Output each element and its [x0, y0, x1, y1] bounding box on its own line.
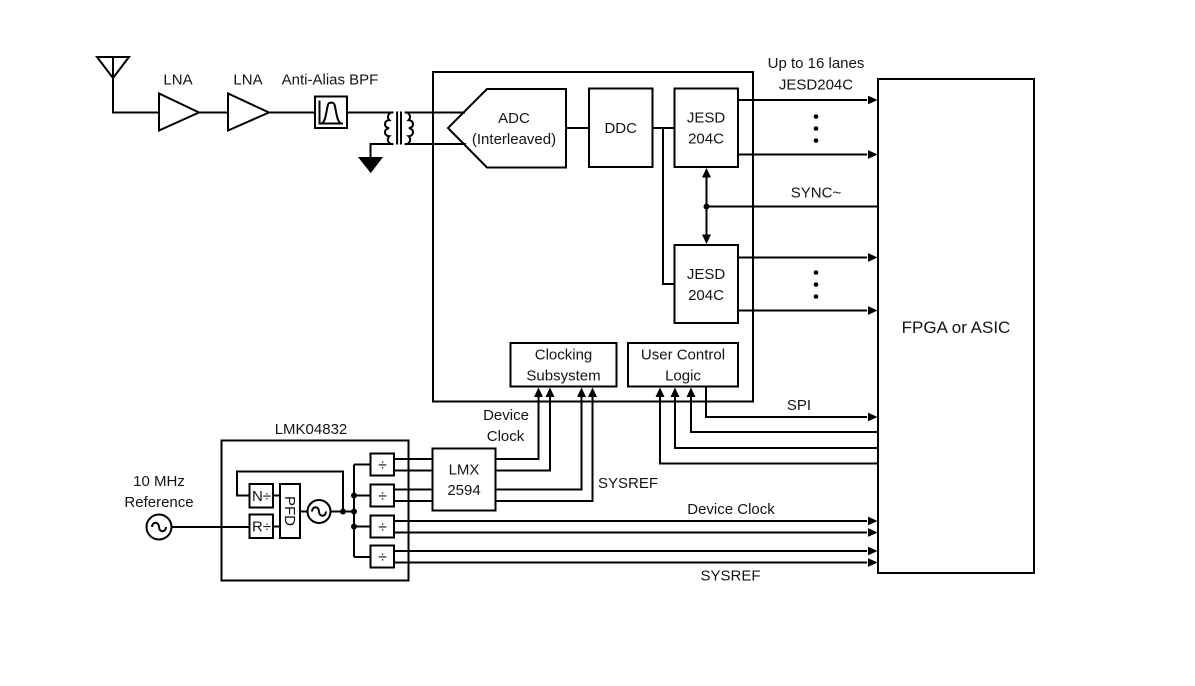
svg-text:DDC: DDC: [604, 120, 637, 137]
svg-text:LMX: LMX: [449, 462, 480, 479]
svg-text:JESD: JESD: [687, 266, 726, 283]
svg-text:2594: 2594: [447, 482, 480, 499]
svg-text:SPI: SPI: [787, 397, 811, 414]
svg-text:JESD: JESD: [687, 110, 726, 127]
svg-text:204C: 204C: [688, 131, 724, 148]
svg-text:SYSREF: SYSREF: [598, 475, 658, 492]
svg-text:÷: ÷: [378, 457, 387, 474]
svg-text:PFD: PFD: [281, 496, 298, 526]
svg-text:LNA: LNA: [233, 72, 262, 89]
svg-text:Device: Device: [483, 407, 529, 424]
svg-text:(Interleaved): (Interleaved): [472, 131, 556, 148]
svg-text:Clock: Clock: [487, 428, 525, 445]
svg-text:R÷: R÷: [252, 519, 271, 536]
svg-text:User Control: User Control: [641, 347, 725, 364]
svg-text:SYNC~: SYNC~: [791, 185, 842, 202]
svg-text:LNA: LNA: [163, 72, 192, 89]
svg-text:Up to 16 lanes: Up to 16 lanes: [768, 55, 865, 72]
svg-text:Subsystem: Subsystem: [526, 368, 600, 385]
svg-text:Logic: Logic: [665, 368, 701, 385]
svg-text:10 MHz: 10 MHz: [133, 473, 185, 490]
svg-text:Reference: Reference: [124, 494, 193, 511]
svg-text:÷: ÷: [378, 549, 387, 566]
svg-text:FPGA or ASIC: FPGA or ASIC: [902, 318, 1011, 337]
svg-text:Anti-Alias BPF: Anti-Alias BPF: [282, 72, 379, 89]
svg-text:÷: ÷: [378, 488, 387, 505]
svg-text:ADC: ADC: [498, 110, 530, 127]
svg-text:SYSREF: SYSREF: [700, 568, 760, 585]
svg-text:JESD204C: JESD204C: [779, 77, 853, 94]
svg-text:Device Clock: Device Clock: [687, 501, 775, 518]
svg-text:LMK04832: LMK04832: [275, 421, 348, 438]
svg-text:204C: 204C: [688, 287, 724, 304]
svg-text:Clocking: Clocking: [535, 347, 593, 364]
svg-text:N÷: N÷: [252, 488, 271, 505]
svg-text:÷: ÷: [378, 519, 387, 536]
